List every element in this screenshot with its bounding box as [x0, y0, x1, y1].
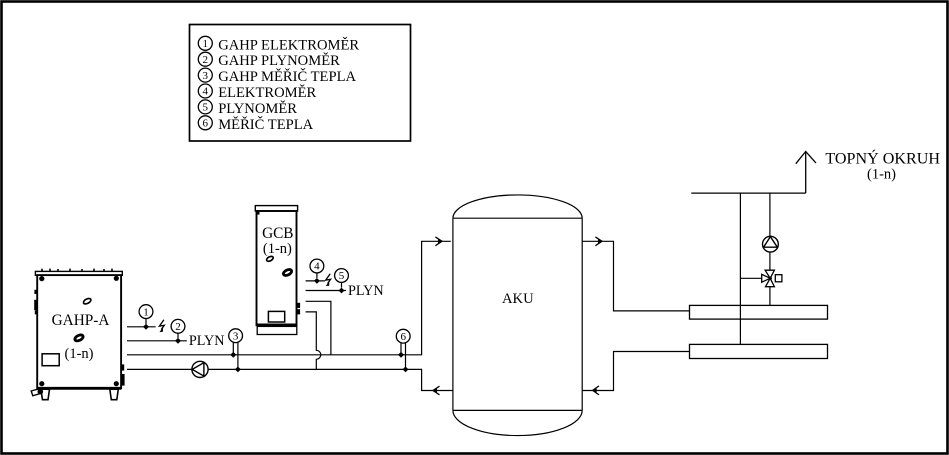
lower header manifold [690, 344, 828, 358]
svg-text:2: 2 [175, 321, 181, 333]
meter circle 1 [139, 305, 153, 324]
legend item 2: GAHP PLYNOMĚR [198, 52, 340, 69]
GAHP-A bottom edge [37, 387, 121, 390]
svg-text:GAHP PLYNOMĚR: GAHP PLYNOMĚR [218, 52, 340, 69]
GAHP-A left side tabs [34, 290, 38, 315]
GAHP-A drain spigot [31, 389, 43, 396]
meter circle 6 with stems [396, 329, 410, 369]
svg-text:GCB: GCB [262, 225, 293, 242]
svg-text:PLYN: PLYN [348, 283, 384, 299]
svg-text:5: 5 [339, 270, 345, 282]
junction dot on electric line [143, 324, 149, 330]
meter circle 2 [171, 319, 185, 338]
wire: GAHP gas line [127, 340, 187, 342]
legend item 6: MĚŘIČ TEPLA [198, 116, 313, 133]
junction dot meter6 return [403, 367, 409, 373]
svg-text:5: 5 [203, 102, 209, 114]
GAHP-A legs [41, 389, 119, 400]
junction dot GCB electric [314, 278, 320, 284]
GCB bottom edge [257, 324, 297, 327]
GCB panel rectangle [268, 311, 284, 322]
svg-text:PLYN: PLYN [189, 333, 225, 349]
unit GAHP-A cabinet [35, 269, 122, 389]
GAHP-A panel rectangle [42, 354, 59, 366]
pipe: return line AKU to GAHP [127, 369, 453, 390]
svg-text:(1-n): (1-n) [65, 346, 94, 362]
GCB right side pipe tabs [297, 303, 300, 315]
svg-text:PLYNOMĚR: PLYNOMĚR [218, 100, 297, 117]
pump P2 on supply riser [763, 236, 779, 252]
GAHP-A right side pipe tabs [121, 364, 125, 385]
svg-text:(1-n): (1-n) [263, 241, 292, 257]
GCB burner sight oval [282, 268, 292, 276]
svg-text:6: 6 [400, 331, 406, 343]
pipe: header return into AKU [582, 352, 689, 391]
svg-text:2: 2 [203, 54, 209, 66]
legend item 5: PLYNOMĚR [198, 100, 297, 117]
arrow on flow out pipe [595, 237, 602, 246]
legend item 3: GAHP MĚŘIČ TEPLA [198, 68, 356, 85]
svg-text:GAHP MĚŘIČ TEPLA: GAHP MĚŘIČ TEPLA [218, 68, 356, 85]
svg-text:3: 3 [203, 70, 209, 82]
wire: return riser from top line through headers [739, 193, 741, 344]
svg-text:1: 1 [143, 306, 149, 318]
legend box [190, 25, 411, 142]
svg-text:GAHP ELEKTROMĚR: GAHP ELEKTROMĚR [218, 36, 359, 53]
legend item 4: ELEKTROMĚR [198, 84, 316, 101]
valve bypass stub [740, 277, 761, 279]
AKU storage tank [453, 195, 582, 436]
legend item 1: GAHP ELEKTROMĚR [198, 36, 359, 53]
svg-text:(1-n): (1-n) [867, 167, 896, 183]
svg-text:AKU: AKU [502, 291, 534, 307]
arrow to TOPNÝ OKRUH [796, 152, 816, 194]
pipe: GCB flow to flow line [306, 301, 331, 355]
junction dot meter3 return [235, 367, 241, 373]
wire: GCB electric line [306, 280, 325, 282]
arrow on return pipe into tank [593, 386, 599, 395]
svg-text:GAHP-A: GAHP-A [52, 312, 110, 329]
junction dot meter6 flow [398, 352, 404, 358]
three-way mixing valve V1 [762, 270, 782, 287]
unit GCB cabinet [255, 206, 297, 335]
wire: GCB gas line [306, 290, 346, 292]
top supply line [691, 192, 805, 194]
lightning bolt at GAHP electric [159, 320, 164, 332]
pump P1 on return line [192, 361, 208, 377]
svg-text:MĚŘIČ TEPLA: MĚŘIČ TEPLA [218, 116, 313, 133]
svg-text:4: 4 [314, 261, 320, 273]
svg-text:3: 3 [233, 330, 239, 342]
junction dot meter3 flow [230, 352, 236, 358]
svg-text:1: 1 [203, 38, 209, 50]
meter circle 5 [335, 269, 349, 288]
arrow out of AKU bottom left [433, 386, 440, 395]
GAHP-A small oval vent [83, 297, 92, 305]
junction dot GCB gas [339, 288, 345, 294]
GCB small oval vent [266, 255, 274, 262]
pipe: GCB return with hop over flow line [306, 312, 321, 370]
GCB top-left clip [257, 212, 260, 215]
lightning bolt at GCB electric [326, 274, 331, 286]
arrow into AKU top left [435, 237, 442, 246]
meter circle 4 [310, 259, 324, 278]
svg-text:6: 6 [203, 118, 209, 130]
upper header manifold [690, 305, 828, 319]
GAHP-A burner sight oval [74, 334, 84, 342]
wire: supply riser with pump and valve [769, 193, 771, 305]
meter circle 3 with stems [229, 329, 243, 370]
pipe: flow line GAHP to AKU [127, 241, 451, 354]
svg-text:TOPNÝ OKRUH: TOPNÝ OKRUH [825, 148, 940, 167]
pipe: AKU flow out to heating headers [582, 241, 689, 311]
svg-text:ELEKTROMĚR: ELEKTROMĚR [218, 84, 316, 101]
GAHP-A screws [39, 276, 119, 387]
junction dot on gas line [175, 338, 181, 344]
svg-text:4: 4 [203, 86, 209, 98]
wire: GAHP electric line [127, 326, 156, 328]
